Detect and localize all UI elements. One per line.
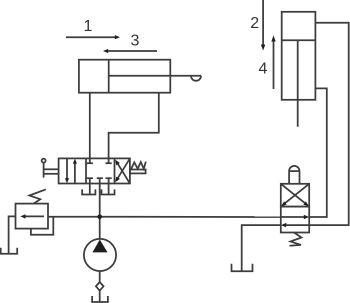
svg-text:1: 1 — [84, 18, 93, 35]
svg-text:4: 4 — [259, 61, 268, 78]
svg-text:2: 2 — [250, 15, 259, 32]
svg-text:3: 3 — [131, 33, 140, 50]
